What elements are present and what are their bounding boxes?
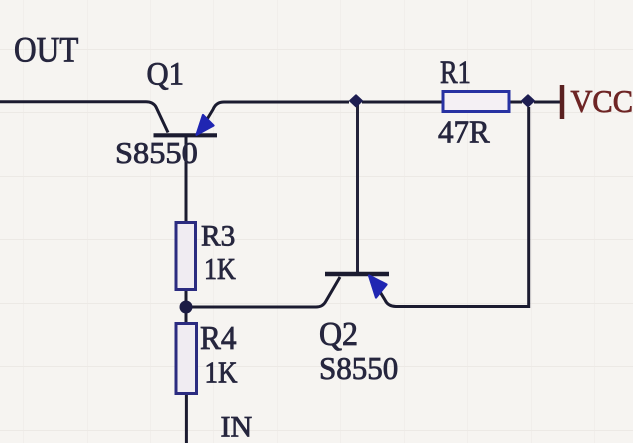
Q1 emitter arrow [197, 115, 214, 135]
wire Q2 emitter to node B rail [371, 107, 529, 307]
wire R4 to IN (bottom edge) [185, 394, 188, 443]
wire OUT (left rail to Q1 collector) [0, 102, 168, 133]
resistor R4 [176, 324, 197, 394]
Q2 base bar [325, 272, 389, 277]
svg-text:Q1: Q1 [147, 56, 185, 92]
resistor R1 [443, 92, 509, 112]
wire node B to VCC [534, 101, 561, 104]
transistor Q2 (PNP S8550) [325, 274, 389, 298]
wire R3 to junction to R4 [185, 290, 188, 323]
wire Q1 base down to R3 [185, 137, 188, 222]
junction dot (R3/R4 node) [180, 301, 193, 314]
svg-text:OUT: OUT [14, 31, 79, 70]
svg-text:Q2: Q2 [319, 316, 358, 353]
svg-text:IN: IN [221, 411, 253, 443]
svg-text:47R: 47R [438, 114, 490, 150]
node A junction diamond [350, 95, 362, 106]
resistor R3 [176, 223, 196, 290]
wire Q2 base up to node A [356, 104, 359, 272]
wire node A to R1 [362, 101, 442, 104]
node B junction diamond [522, 95, 534, 106]
svg-text:1K: 1K [205, 356, 238, 390]
VCC bar [560, 85, 565, 119]
wire R1 to node B [509, 101, 522, 104]
svg-text:R3: R3 [201, 220, 235, 252]
svg-text:S8550: S8550 [115, 136, 198, 170]
svg-text:S8550: S8550 [319, 351, 398, 387]
wire Q1 emitter to top rail [199, 102, 349, 133]
Q1 base bar [154, 133, 218, 137]
wire junction to Q2 collector [186, 277, 340, 307]
Q2 emitter arrow [369, 276, 387, 298]
svg-text:R4: R4 [200, 320, 237, 357]
svg-text:VCC: VCC [571, 83, 633, 119]
svg-text:R1: R1 [440, 54, 471, 90]
transistor Q1 (PNP S8550) [154, 115, 218, 135]
svg-text:1K: 1K [204, 252, 236, 287]
